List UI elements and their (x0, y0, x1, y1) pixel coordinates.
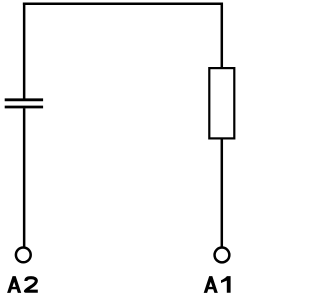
wire top horizontal (23, 3, 223, 6)
terminal A2 circle (16, 248, 31, 263)
capacitor C1 (5, 100, 43, 107)
wire right vertical lower (221, 139, 224, 247)
wire left vertical upper (23, 3, 26, 99)
resistor R1 (209, 68, 234, 138)
label A2 (7, 276, 38, 293)
label A1 (204, 276, 231, 293)
wire right vertical upper (221, 3, 224, 68)
terminal A1 circle (215, 248, 230, 263)
wire left vertical lower (23, 108, 26, 247)
